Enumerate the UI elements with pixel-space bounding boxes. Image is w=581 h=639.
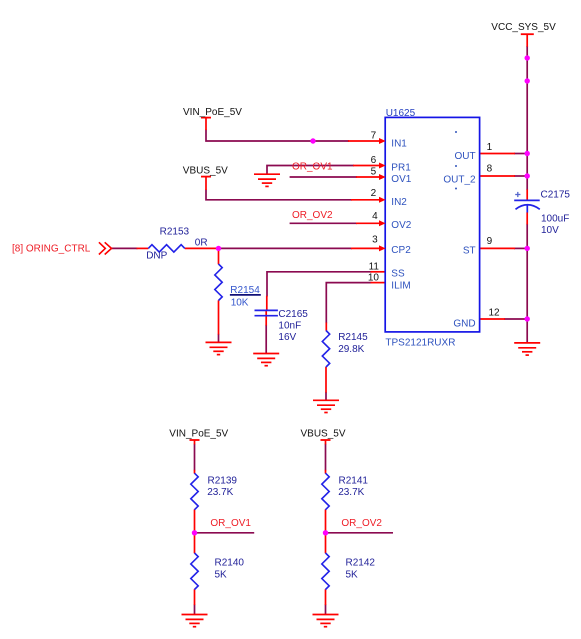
- svg-text:C2165: C2165: [278, 309, 308, 320]
- svg-text:9: 9: [487, 236, 493, 247]
- svg-text:1: 1: [487, 142, 493, 153]
- svg-text:VBUS_5V: VBUS_5V: [183, 166, 228, 177]
- svg-text:4: 4: [372, 211, 378, 222]
- svg-text:R2139: R2139: [208, 475, 238, 486]
- svg-text:2: 2: [371, 188, 377, 199]
- svg-text:VIN_PoE_5V: VIN_PoE_5V: [183, 107, 242, 118]
- svg-text:3: 3: [372, 234, 378, 245]
- svg-text:5: 5: [371, 166, 377, 177]
- svg-text:ST: ST: [463, 246, 476, 257]
- svg-text:OR_OV1: OR_OV1: [210, 518, 251, 529]
- svg-text:R2140: R2140: [215, 558, 245, 569]
- svg-text:TPS2121RUXR: TPS2121RUXR: [385, 337, 455, 348]
- svg-text:OUT: OUT: [454, 151, 475, 162]
- svg-text:OR_OV2: OR_OV2: [341, 518, 382, 529]
- svg-text:7: 7: [371, 130, 377, 141]
- svg-text:23.7K: 23.7K: [338, 487, 364, 498]
- svg-text:OV2: OV2: [391, 220, 411, 231]
- svg-text:29.8K: 29.8K: [338, 344, 364, 355]
- svg-text:23.7K: 23.7K: [207, 487, 233, 498]
- svg-text:5K: 5K: [215, 569, 228, 580]
- svg-text:OUT_2: OUT_2: [443, 175, 476, 186]
- svg-text:OV1: OV1: [391, 174, 411, 185]
- svg-text:0R: 0R: [195, 238, 208, 249]
- svg-text:R2141: R2141: [339, 475, 369, 486]
- svg-text:12: 12: [489, 308, 501, 319]
- svg-text:10V: 10V: [541, 225, 559, 236]
- svg-text:VIN_PoE_5V: VIN_PoE_5V: [169, 429, 228, 440]
- svg-text:CP2: CP2: [391, 245, 411, 256]
- svg-text:GND: GND: [453, 318, 475, 329]
- svg-text:R2153: R2153: [160, 227, 190, 238]
- svg-text:10nF: 10nF: [278, 321, 301, 332]
- svg-text:R2142: R2142: [346, 558, 376, 569]
- svg-text:IN1: IN1: [391, 138, 407, 149]
- svg-text:R2145: R2145: [338, 332, 368, 343]
- svg-text:SS: SS: [391, 269, 405, 280]
- svg-text:100uF: 100uF: [541, 214, 569, 225]
- svg-text:5K: 5K: [346, 569, 359, 580]
- svg-text:10: 10: [368, 273, 380, 284]
- svg-text:6: 6: [371, 155, 377, 166]
- svg-text:VBUS_5V: VBUS_5V: [301, 429, 346, 440]
- svg-text:16V: 16V: [278, 332, 296, 343]
- svg-text:IN2: IN2: [391, 197, 407, 208]
- svg-text:VCC_SYS_5V: VCC_SYS_5V: [491, 22, 556, 33]
- svg-text:[8] ORING_CTRL: [8] ORING_CTRL: [12, 243, 91, 254]
- svg-text:OR_OV2: OR_OV2: [292, 210, 333, 221]
- svg-text:DNP: DNP: [146, 250, 167, 261]
- svg-text:11: 11: [369, 261, 380, 272]
- svg-text:ILIM: ILIM: [391, 281, 410, 292]
- svg-text:C2175: C2175: [541, 190, 571, 201]
- svg-text:PR1: PR1: [391, 162, 411, 173]
- svg-text:U1625: U1625: [386, 108, 416, 119]
- svg-text:OR_OV1: OR_OV1: [292, 162, 333, 173]
- svg-text:8: 8: [487, 164, 493, 175]
- svg-text:10K: 10K: [231, 297, 249, 308]
